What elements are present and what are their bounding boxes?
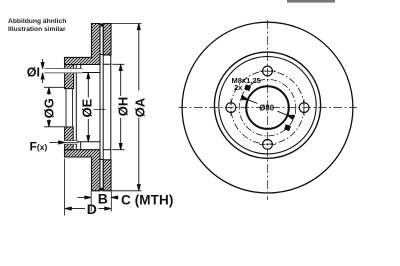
svg-text:ØG: ØG — [41, 98, 56, 118]
svg-text:Illustration similar: Illustration similar — [8, 26, 66, 33]
svg-text:C (MTH): C (MTH) — [121, 192, 173, 207]
svg-text:ØH: ØH — [115, 97, 130, 116]
svg-text:B: B — [98, 190, 108, 206]
svg-text:D: D — [87, 201, 97, 217]
svg-text:F: F — [30, 140, 37, 154]
svg-text:Abbildung ähnlich: Abbildung ähnlich — [8, 18, 66, 25]
svg-text:(x): (x) — [37, 142, 48, 152]
svg-text:ØE: ØE — [79, 98, 94, 117]
svg-text:Ø80: Ø80 — [259, 103, 275, 112]
svg-text:2x: 2x — [234, 83, 243, 92]
svg-text:ØI: ØI — [27, 66, 40, 80]
svg-text:ØA: ØA — [132, 97, 147, 117]
